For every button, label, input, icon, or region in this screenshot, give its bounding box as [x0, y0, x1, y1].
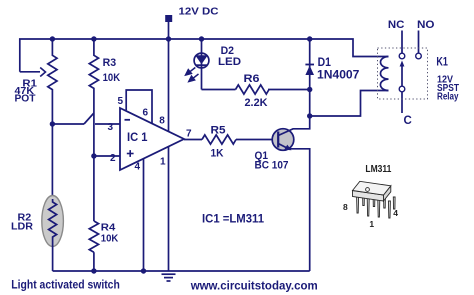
transistor Q1 base bar [277, 132, 279, 148]
diode D1 triangle [305, 66, 314, 76]
svg-text:3: 3 [108, 122, 114, 133]
wire LED to R6 [202, 89, 236, 91]
pot wiper arrowhead [40, 68, 45, 77]
wire top rail [20, 39, 389, 72]
svg-text:1K: 1K [211, 148, 224, 160]
node 12V/pin8 [166, 36, 171, 41]
relay contact NO [416, 53, 422, 59]
LM311 DIP package drawing [353, 181, 396, 218]
svg-text:1: 1 [160, 157, 166, 168]
LED D2 cathode bar [196, 64, 208, 66]
wire pin4 to bottom rail [143, 159, 145, 271]
svg-text:LM311: LM311 [365, 164, 391, 175]
node pin4 bottom [141, 268, 146, 273]
svg-text:BC 107: BC 107 [255, 160, 289, 172]
wire LED stem [201, 39, 203, 90]
node R4 bottom [91, 268, 96, 273]
wire hop over R3 line [84, 113, 94, 124]
svg-text:LDR: LDR [11, 221, 33, 233]
DIP body top face [353, 181, 391, 195]
svg-text:6: 6 [143, 107, 149, 118]
resistor R1 (pot) zigzag [48, 39, 57, 124]
wire R3 bottom to node [93, 113, 95, 156]
op-amp minus sign [125, 119, 131, 121]
node D1/R6 [307, 87, 312, 92]
svg-text:R5: R5 [211, 125, 226, 137]
svg-text:5: 5 [118, 96, 124, 107]
diode D1 stem [309, 39, 311, 116]
wire pin3 from pot [52, 123, 84, 125]
DIP back row pins [363, 193, 365, 206]
op-amp plus sign [127, 150, 134, 157]
svg-text:1N4007: 1N4007 [317, 70, 359, 82]
LED D2 triangle [195, 55, 208, 64]
12V DC terminal [165, 15, 172, 22]
ground symbol [162, 274, 176, 281]
wire node to R4 [93, 156, 95, 221]
svg-text:Relay: Relay [437, 90, 459, 102]
diode D1 cathode bar [305, 64, 314, 66]
wire R4 to bottom rail [93, 252, 95, 271]
wire R6 to D1 node [268, 89, 310, 91]
wire relay NO terminal [418, 31, 420, 54]
LED arrow 1 [186, 68, 199, 82]
resistor R5 zigzag [202, 135, 236, 144]
svg-text:www.circuitstoday.com: www.circuitstoday.com [190, 281, 318, 293]
svg-text:7: 7 [186, 129, 192, 140]
resistor R4 zigzag [89, 221, 98, 252]
DIP front row pins [357, 197, 359, 214]
transistor Q1 body [272, 129, 294, 151]
node R3/R4 divider [91, 153, 96, 158]
svg-text:2: 2 [110, 153, 116, 164]
svg-text:8: 8 [159, 116, 165, 127]
svg-text:Light activated switch: Light activated switch [11, 277, 120, 291]
node R1 top [50, 36, 55, 41]
svg-text:4: 4 [135, 162, 141, 173]
wire pot bottom to LDR [51, 124, 53, 196]
svg-text:1: 1 [369, 219, 374, 229]
wire pin3 into IC [95, 123, 120, 125]
LED arrow 2 [192, 74, 199, 79]
node collector/relay [307, 113, 312, 118]
wire R5 to transistor base [236, 139, 273, 141]
LDR R2 zigzag [49, 199, 57, 243]
transistor Q1 emitter arrowhead [284, 145, 291, 151]
relay dotted enclosure [378, 48, 428, 99]
svg-text:IC1 =LM311: IC1 =LM311 [202, 212, 264, 226]
wire bottom rail [53, 270, 310, 272]
op-amp IC1 triangle [120, 108, 184, 170]
svg-text:D1: D1 [318, 57, 332, 69]
wire pin5 strap [126, 90, 152, 123]
transistor Q1 collector [278, 116, 310, 136]
svg-text:POT: POT [15, 93, 36, 104]
wire pin8 to rail [168, 39, 170, 132]
wire pin2 from node [94, 155, 120, 157]
node R3 top [91, 36, 96, 41]
svg-text:C: C [404, 115, 412, 127]
svg-text:NC: NC [388, 19, 405, 31]
svg-text:IC 1: IC 1 [127, 132, 148, 144]
svg-text:R3: R3 [103, 57, 117, 69]
wire collector node to relay coil [310, 91, 389, 117]
relay armature [401, 64, 403, 86]
wire pin7 output to R5 [184, 139, 202, 141]
svg-text:2.2K: 2.2K [245, 97, 268, 109]
svg-text:12V DC: 12V DC [179, 6, 219, 18]
svg-text:D2: D2 [221, 45, 234, 57]
node D1 top [307, 36, 312, 41]
svg-text:R6: R6 [244, 73, 260, 85]
resistor R3 zigzag [89, 39, 98, 113]
transistor Q1 emitter [278, 144, 310, 272]
wire pot wiper arm [20, 71, 40, 73]
LED D2 circle [194, 53, 209, 68]
DIP body right face [384, 186, 391, 201]
node pot wiper [50, 121, 55, 126]
svg-text:K1: K1 [436, 57, 448, 69]
relay contact NC [399, 53, 405, 59]
relay armature arrowhead [400, 61, 405, 67]
relay coil K1 [380, 57, 388, 91]
wire relay NC terminal [401, 31, 403, 54]
wire LDR to bottom rail [52, 243, 54, 271]
LDR R2 body [42, 196, 64, 247]
svg-text:10K: 10K [101, 233, 119, 245]
resistor R6 zigzag [236, 85, 270, 94]
node LED top [199, 36, 204, 41]
svg-text:4: 4 [393, 208, 398, 218]
svg-text:NO: NO [417, 19, 435, 31]
wire relay C terminal [401, 92, 403, 113]
svg-text:10K: 10K [103, 72, 121, 84]
DIP body front face [353, 191, 384, 202]
wire 12V terminal stem [168, 22, 170, 40]
relay contact C pivot [399, 86, 405, 92]
svg-text:LED: LED [218, 56, 241, 68]
DIP notch [366, 188, 370, 192]
svg-text:8: 8 [343, 202, 348, 212]
wire pin1 to ground [168, 147, 170, 272]
